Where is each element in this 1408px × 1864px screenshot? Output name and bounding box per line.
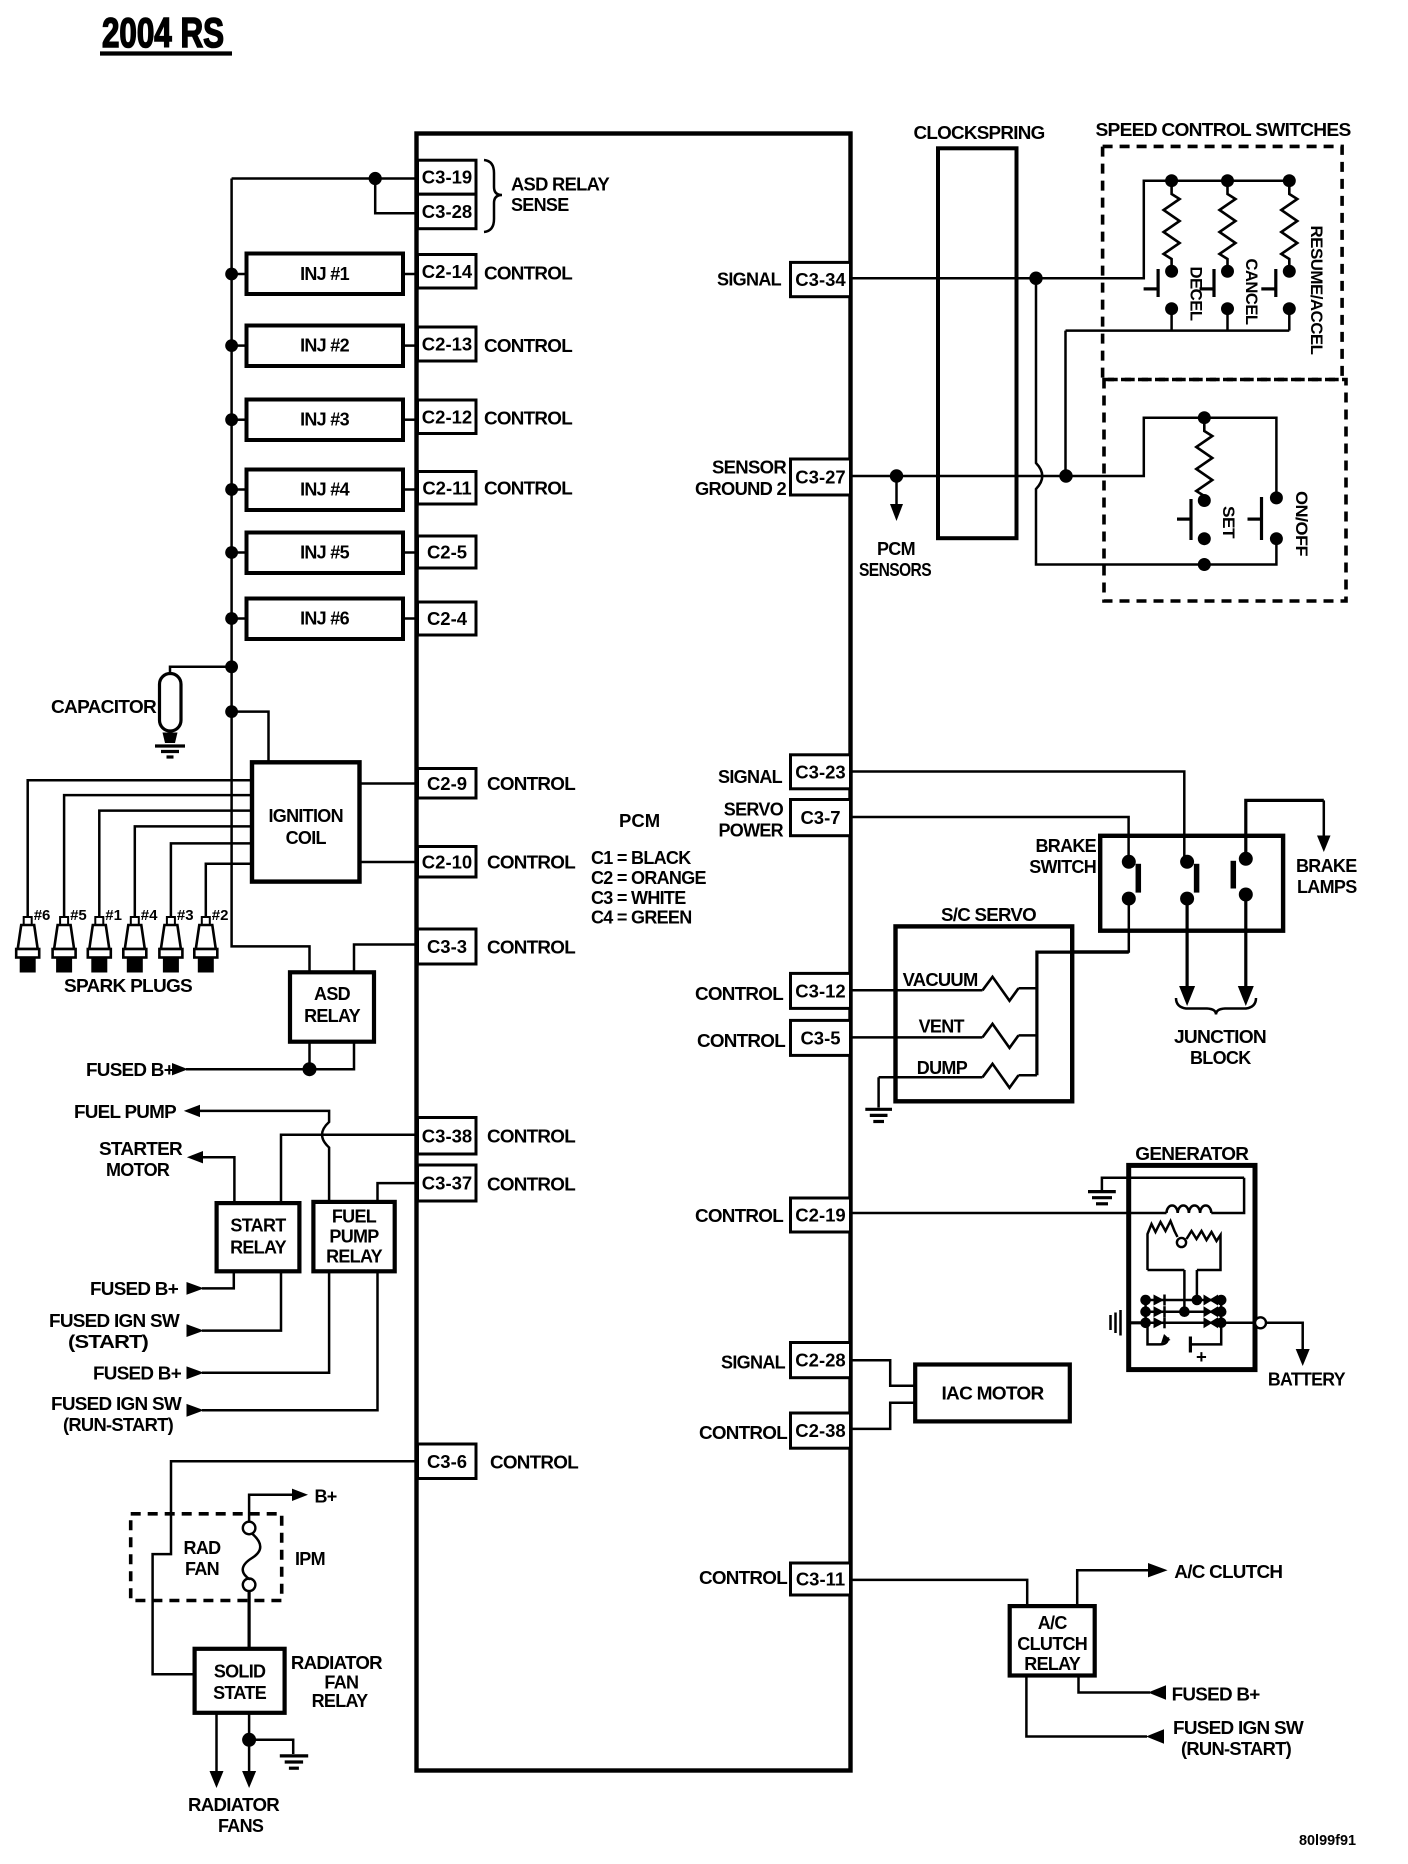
svg-text:#5: #5	[70, 907, 87, 924]
svg-text:FAN: FAN	[185, 1559, 219, 1579]
svg-text:FANS: FANS	[218, 1816, 264, 1836]
svg-text:GROUND 2: GROUND 2	[695, 479, 787, 499]
svg-text:CONTROL: CONTROL	[695, 1206, 784, 1226]
svg-text:B+: B+	[315, 1487, 337, 1507]
svg-text:RESUME/ACCEL: RESUME/ACCEL	[1307, 226, 1325, 355]
svg-text:SIGNAL: SIGNAL	[718, 767, 783, 787]
svg-text:C3-5: C3-5	[800, 1027, 840, 1048]
svg-text:BATTERY: BATTERY	[1268, 1370, 1346, 1390]
svg-text:SPEED CONTROL SWITCHES: SPEED CONTROL SWITCHES	[1096, 120, 1352, 140]
svg-text:ASD: ASD	[314, 984, 351, 1004]
svg-text:LAMPS: LAMPS	[1297, 877, 1357, 897]
svg-text:C3-23: C3-23	[795, 761, 845, 782]
svg-text:BLOCK: BLOCK	[1190, 1048, 1251, 1068]
svg-text:BRAKE: BRAKE	[1296, 856, 1357, 876]
svg-text:RAD: RAD	[184, 1538, 222, 1558]
svg-text:#2: #2	[212, 907, 229, 924]
svg-text:STATE: STATE	[213, 1683, 267, 1703]
svg-text:C2-13: C2-13	[422, 334, 472, 355]
svg-text:C3-12: C3-12	[795, 980, 845, 1001]
svg-text:C3-7: C3-7	[800, 807, 840, 828]
svg-text:RADIATOR: RADIATOR	[188, 1795, 280, 1815]
svg-text:CONTROL: CONTROL	[484, 336, 573, 356]
svg-text:FUSED B+: FUSED B+	[90, 1279, 178, 1299]
svg-text:#6: #6	[34, 907, 51, 924]
svg-text:SPARK PLUGS: SPARK PLUGS	[64, 976, 193, 996]
svg-text:CONTROL: CONTROL	[487, 1127, 576, 1147]
svg-text:C3-11: C3-11	[796, 1569, 845, 1590]
svg-text:(START): (START)	[68, 1332, 149, 1352]
svg-text:GENERATOR: GENERATOR	[1135, 1144, 1249, 1164]
svg-text:PCM: PCM	[619, 810, 660, 831]
svg-text:IPM: IPM	[295, 1549, 325, 1569]
svg-text:CONTROL: CONTROL	[487, 774, 576, 794]
svg-text:MOTOR: MOTOR	[106, 1160, 170, 1180]
svg-text:IAC MOTOR: IAC MOTOR	[942, 1384, 1045, 1404]
svg-text:FUEL PUMP: FUEL PUMP	[74, 1102, 177, 1122]
svg-text:CONTROL: CONTROL	[487, 1175, 576, 1195]
svg-text:CONTROL: CONTROL	[484, 264, 573, 284]
svg-text:IGNITION: IGNITION	[268, 806, 342, 826]
svg-text:STARTER: STARTER	[99, 1139, 183, 1159]
svg-text:BRAKE: BRAKE	[1035, 836, 1096, 856]
svg-text:CONTROL: CONTROL	[484, 409, 573, 429]
svg-text:VACUUM: VACUUM	[903, 970, 978, 990]
svg-text:SENSE: SENSE	[511, 195, 569, 215]
svg-text:(RUN-START): (RUN-START)	[63, 1415, 174, 1435]
svg-text:ASD RELAY: ASD RELAY	[511, 175, 610, 195]
svg-text:#1: #1	[105, 907, 122, 924]
svg-text:SIGNAL: SIGNAL	[717, 270, 782, 290]
svg-text:C2-11: C2-11	[422, 477, 471, 498]
svg-text:CONTROL: CONTROL	[487, 853, 576, 873]
svg-text:CONTROL: CONTROL	[484, 479, 573, 499]
svg-text:FAN: FAN	[324, 1673, 358, 1693]
svg-text:SWITCH: SWITCH	[1029, 857, 1096, 877]
svg-text:SERVO: SERVO	[724, 800, 784, 820]
svg-text:S/C SERVO: S/C SERVO	[941, 905, 1037, 925]
svg-text:RELAY: RELAY	[1024, 1654, 1081, 1674]
svg-text:RELAY: RELAY	[312, 1691, 369, 1711]
svg-text:C3-38: C3-38	[422, 1125, 472, 1146]
svg-text:C2-9: C2-9	[427, 773, 467, 794]
svg-text:C3-37: C3-37	[422, 1173, 472, 1194]
svg-text:CONTROL: CONTROL	[695, 984, 784, 1004]
svg-text:C2-4: C2-4	[427, 608, 468, 629]
svg-text:80l99f91: 80l99f91	[1299, 1832, 1356, 1849]
svg-text:C2-28: C2-28	[795, 1350, 845, 1371]
svg-text:DECEL: DECEL	[1187, 267, 1205, 321]
svg-text:ON/OFF: ON/OFF	[1292, 491, 1310, 556]
svg-text:JUNCTION: JUNCTION	[1174, 1027, 1266, 1047]
svg-text:C2 = ORANGE: C2 = ORANGE	[591, 868, 707, 888]
svg-text:CONTROL: CONTROL	[699, 1423, 788, 1443]
svg-text:CANCEL: CANCEL	[1242, 259, 1260, 325]
svg-text:CONTROL: CONTROL	[699, 1568, 788, 1588]
svg-text:INJ #4: INJ #4	[300, 480, 350, 500]
svg-text:C2-10: C2-10	[422, 851, 472, 872]
svg-text:RADIATOR: RADIATOR	[291, 1653, 383, 1673]
svg-text:RELAY: RELAY	[230, 1238, 287, 1258]
svg-text:A/C: A/C	[1038, 1613, 1068, 1633]
svg-text:CLOCKSPRING: CLOCKSPRING	[914, 123, 1045, 143]
svg-text:CONTROL: CONTROL	[490, 1453, 579, 1473]
svg-text:FUSED IGN SW: FUSED IGN SW	[1173, 1718, 1304, 1738]
svg-text:SET: SET	[1219, 506, 1237, 538]
svg-text:2004 RS: 2004 RS	[102, 9, 224, 56]
svg-text:C3-28: C3-28	[422, 201, 472, 222]
svg-text:PCM: PCM	[877, 539, 915, 559]
svg-text:FUEL: FUEL	[332, 1207, 377, 1227]
svg-text:PUMP: PUMP	[329, 1227, 379, 1247]
svg-text:FUSED B+: FUSED B+	[1172, 1685, 1260, 1705]
svg-text:C1 = BLACK: C1 = BLACK	[591, 848, 691, 868]
svg-text:C3-3: C3-3	[427, 936, 467, 957]
svg-text:C2-38: C2-38	[795, 1420, 845, 1441]
svg-text:C2-5: C2-5	[427, 542, 467, 563]
svg-text:START: START	[230, 1216, 286, 1236]
svg-text:INJ #5: INJ #5	[300, 543, 350, 563]
svg-text:INJ #6: INJ #6	[300, 609, 350, 629]
svg-text:#3: #3	[177, 907, 194, 924]
svg-text:+: +	[1196, 1346, 1207, 1367]
svg-text:FUSED IGN SW: FUSED IGN SW	[51, 1394, 182, 1414]
svg-text:FUSED IGN SW: FUSED IGN SW	[49, 1311, 180, 1331]
svg-text:SOLID: SOLID	[214, 1662, 266, 1682]
svg-text:DUMP: DUMP	[917, 1058, 968, 1078]
svg-text:#4: #4	[141, 907, 158, 924]
svg-text:CAPACITOR: CAPACITOR	[51, 697, 157, 717]
svg-text:C2-12: C2-12	[422, 406, 472, 427]
svg-text:VENT: VENT	[919, 1017, 965, 1037]
svg-text:RELAY: RELAY	[304, 1006, 361, 1026]
svg-text:SIGNAL: SIGNAL	[721, 1353, 786, 1373]
svg-text:C3-6: C3-6	[427, 1451, 467, 1472]
svg-text:COIL: COIL	[286, 828, 327, 848]
svg-text:POWER: POWER	[718, 821, 783, 841]
svg-text:RELAY: RELAY	[326, 1247, 383, 1267]
svg-text:C3 = WHITE: C3 = WHITE	[591, 888, 686, 908]
svg-text:C2-19: C2-19	[795, 1205, 845, 1226]
svg-text:C3-19: C3-19	[422, 167, 472, 188]
svg-text:CLUTCH: CLUTCH	[1017, 1634, 1087, 1654]
svg-text:INJ #1: INJ #1	[300, 264, 350, 284]
svg-text:C4 = GREEN: C4 = GREEN	[591, 908, 692, 928]
svg-text:C3-34: C3-34	[795, 269, 846, 290]
svg-text:C2-14: C2-14	[422, 261, 473, 282]
svg-text:SENSOR: SENSOR	[712, 458, 787, 478]
svg-text:CONTROL: CONTROL	[697, 1031, 786, 1051]
svg-text:INJ #2: INJ #2	[300, 336, 350, 356]
svg-text:INJ #3: INJ #3	[300, 410, 350, 430]
svg-text:SENSORS: SENSORS	[859, 560, 932, 580]
svg-text:A/C CLUTCH: A/C CLUTCH	[1174, 1562, 1282, 1582]
svg-text:FUSED B+: FUSED B+	[86, 1060, 174, 1080]
svg-text:(RUN-START): (RUN-START)	[1181, 1739, 1292, 1759]
svg-text:C3-27: C3-27	[795, 467, 845, 488]
svg-text:CONTROL: CONTROL	[487, 938, 576, 958]
svg-text:FUSED B+: FUSED B+	[93, 1364, 181, 1384]
